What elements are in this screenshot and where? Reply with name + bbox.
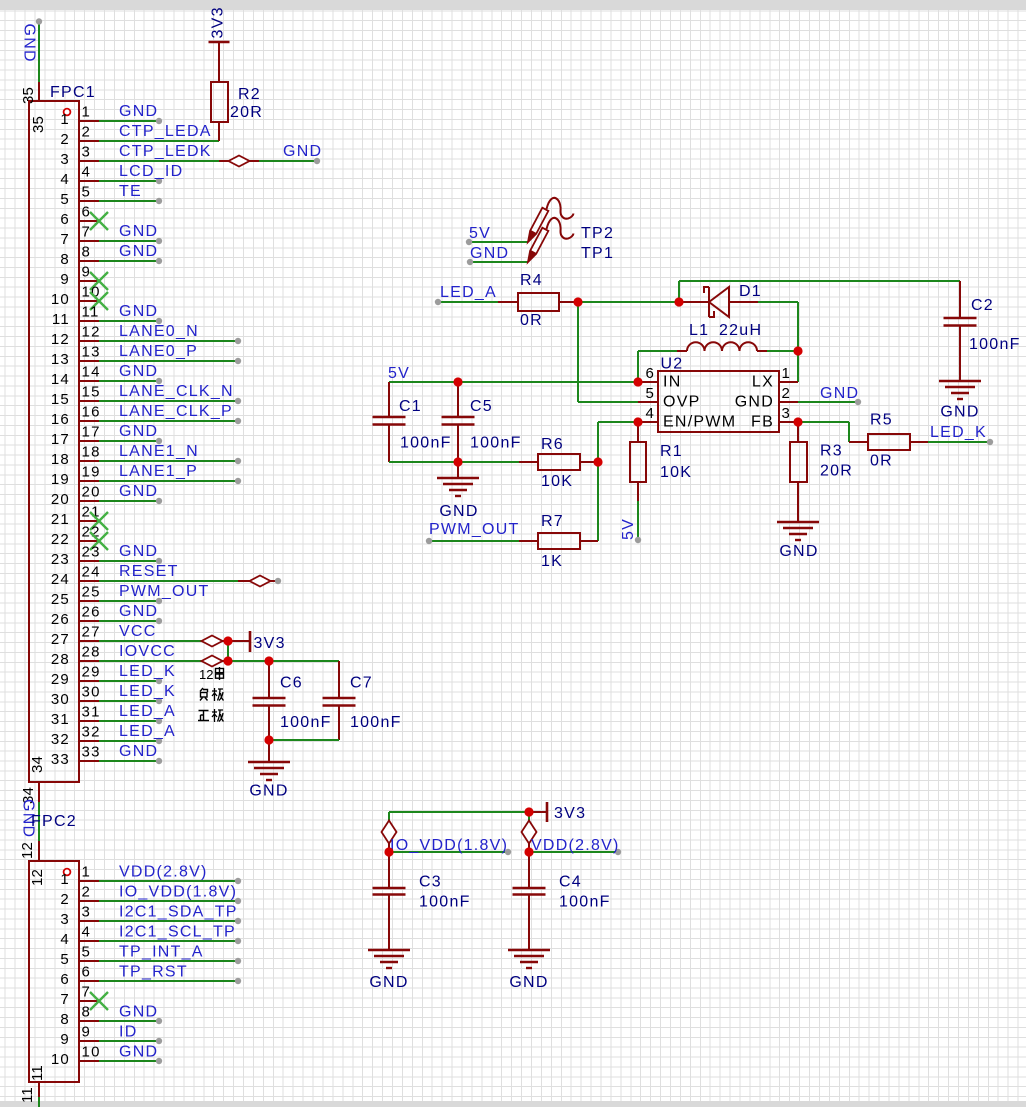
- net label GND pin 20: [119, 483, 158, 500]
- FPC1 pin 34 name (inside): [29, 756, 46, 773]
- net label GND pin 10: [119, 1044, 158, 1061]
- svg-text:28: 28: [82, 644, 101, 661]
- capacitor C3: [373, 852, 406, 950]
- net label GND on pin 3 wire: [283, 143, 322, 160]
- wire GND from FPC1 pin 20: [99, 498, 162, 504]
- svg-text:GND: GND: [940, 404, 979, 421]
- diode D1 (schottky): [679, 287, 758, 317]
- svg-text:22: 22: [51, 531, 70, 548]
- svg-text:LANE_CLK_P: LANE_CLK_P: [119, 403, 233, 420]
- svg-text:1: 1: [82, 104, 92, 121]
- FPC2 pin 5 stub: [60, 944, 99, 969]
- junction C5 top: [453, 377, 462, 386]
- FPC2 pin 12 number (outside): [19, 842, 36, 859]
- R7 value 1K: [541, 553, 563, 570]
- svg-text:16: 16: [51, 411, 70, 428]
- svg-text:2: 2: [60, 131, 70, 148]
- svg-text:IN: IN: [663, 374, 682, 391]
- svg-text:IOVCC: IOVCC: [119, 643, 176, 660]
- svg-text:27: 27: [51, 631, 70, 648]
- ground symbol below C2: [939, 381, 981, 399]
- wire LANE_CLK_N from FPC1 pin 15: [99, 398, 241, 404]
- FPC1 pin 33 stub: [51, 744, 101, 769]
- svg-text:GND: GND: [119, 363, 158, 380]
- svg-text:20R: 20R: [230, 104, 263, 121]
- D1 ref label: [739, 283, 762, 300]
- FPC1 pin 6 no-connect X: [90, 212, 108, 230]
- svg-text:VDD(2.8V): VDD(2.8V): [119, 864, 208, 881]
- FPC1 pin 21 stub: [51, 504, 101, 529]
- svg-text:12: 12: [29, 869, 46, 886]
- net label LED_K pin 30: [119, 683, 176, 700]
- C3 ref label: [419, 874, 442, 891]
- junction at EN pin: [633, 417, 642, 426]
- annotation text 负极 (negative): [200, 688, 224, 701]
- FPC2 pin 11 number (outside): [19, 1087, 36, 1103]
- svg-text:5V: 5V: [469, 225, 491, 242]
- R4 value 0R: [520, 312, 543, 329]
- svg-text:1: 1: [782, 365, 791, 382]
- svg-text:3: 3: [782, 405, 791, 422]
- svg-text:6: 6: [645, 365, 654, 382]
- top toolbar strip: [0, 0, 1026, 10]
- svg-text:C7: C7: [350, 675, 373, 692]
- net port diamond on IO_VDD branch: [382, 812, 397, 852]
- svg-text:GND: GND: [119, 543, 158, 560]
- svg-text:20R: 20R: [820, 463, 853, 480]
- svg-text:11: 11: [52, 311, 70, 328]
- svg-text:12: 12: [19, 842, 36, 859]
- net label LED_K: [930, 424, 987, 441]
- svg-text:R4: R4: [520, 272, 543, 289]
- wire R1 to 5V label: [635, 501, 641, 543]
- connector FPC2 body: [29, 861, 79, 1082]
- net label GND pin 8: [119, 243, 158, 260]
- R2 value 20R: [230, 104, 263, 121]
- FPC1 pin 11 stub: [52, 304, 100, 329]
- resistor R6: [519, 454, 598, 470]
- FPC2 pin 10 stub: [51, 1044, 101, 1069]
- svg-text:L1: L1: [689, 322, 709, 339]
- FPC2 ref label: [31, 813, 77, 830]
- svg-text:IO_VDD(1.8V): IO_VDD(1.8V): [390, 837, 508, 854]
- svg-text:100nF: 100nF: [280, 714, 332, 731]
- net label IO_VDD(1.8V): [390, 837, 508, 854]
- svg-text:LED_K: LED_K: [119, 683, 176, 700]
- GND flag text below C3: [369, 974, 408, 991]
- svg-text:14: 14: [82, 364, 101, 381]
- U2 pin 4 EN/PWM stub: [638, 405, 736, 431]
- power flag 3V3 at R2: [209, 6, 230, 42]
- FPC1 pin 12 stub: [51, 324, 101, 349]
- junction on IOVCC node: [223, 656, 232, 665]
- svg-text:9: 9: [82, 1024, 92, 1041]
- svg-text:14: 14: [51, 371, 70, 388]
- svg-text:33: 33: [82, 744, 101, 761]
- svg-text:3: 3: [60, 911, 70, 928]
- svg-text:PWM_OUT: PWM_OUT: [119, 583, 210, 600]
- svg-text:FPC1: FPC1: [50, 84, 96, 101]
- wire LANE_CLK_P from FPC1 pin 16: [99, 418, 241, 424]
- R5 value 0R: [870, 453, 893, 470]
- FPC1 pin 35 name (inside): [30, 116, 47, 133]
- R1 ref label: [660, 443, 683, 460]
- wire D1 anode to LX node: [758, 302, 798, 351]
- svg-text:EN/PWM: EN/PWM: [663, 414, 736, 431]
- C7 ref label: [350, 675, 373, 692]
- junction VDD node: [524, 847, 533, 856]
- svg-text:IO_VDD(1.8V): IO_VDD(1.8V): [119, 884, 237, 901]
- C4 value 100nF: [559, 894, 611, 911]
- junction C6 bottom: [264, 735, 273, 744]
- wire LED_A from FPC1 pin 31: [99, 718, 162, 724]
- FPC1 ref label: [50, 84, 96, 101]
- ground symbol below C5: [437, 462, 479, 496]
- wire LX junction down to LX pin: [797, 351, 799, 382]
- svg-text:8: 8: [82, 244, 92, 261]
- svg-text:C6: C6: [280, 675, 303, 692]
- svg-text:21: 21: [51, 511, 70, 528]
- svg-text:LCD_ID: LCD_ID: [119, 163, 183, 180]
- svg-text:TP2: TP2: [581, 225, 614, 242]
- R3 value 20R: [820, 463, 853, 480]
- resistor R4: [498, 293, 578, 311]
- FPC2 pin 8 stub: [60, 1004, 99, 1029]
- resistor R7: [519, 533, 598, 549]
- svg-text:16: 16: [82, 404, 101, 421]
- svg-text:20: 20: [82, 484, 101, 501]
- net port diamond on CTP_LEDK: [229, 156, 250, 167]
- svg-text:4: 4: [645, 405, 654, 422]
- wire PWM_OUT to R7: [426, 538, 519, 544]
- svg-text:I2C1_SDA_TP: I2C1_SDA_TP: [119, 904, 238, 921]
- wire GND from FPC1 pin 11: [99, 318, 162, 324]
- net label GND (vertical, between connectors): [20, 799, 37, 838]
- wire LANE1_N from FPC1 pin 18: [99, 458, 241, 464]
- FPC1 pin 10 stub: [51, 284, 101, 309]
- wire LANE0_N from FPC1 pin 12: [99, 338, 241, 344]
- svg-text:20: 20: [51, 491, 70, 508]
- svg-text:3V3: 3V3: [210, 6, 227, 38]
- svg-text:GND: GND: [119, 483, 158, 500]
- C1 ref label: [399, 398, 422, 415]
- U2 pin 2 GND stub: [735, 385, 798, 411]
- FPC2 pin 4 stub: [60, 924, 99, 949]
- FPC1 pin 10 no-connect X: [90, 292, 108, 310]
- svg-text:12: 12: [199, 667, 213, 682]
- wire LANE0_P from FPC1 pin 13: [99, 358, 241, 364]
- svg-text:6: 6: [60, 971, 70, 988]
- net label LANE0_P pin 13: [119, 343, 198, 360]
- capacitor C4: [513, 852, 546, 950]
- svg-text:GND: GND: [119, 423, 158, 440]
- svg-text:GND: GND: [735, 394, 774, 411]
- wire node down to OVP: [578, 302, 638, 402]
- svg-text:23: 23: [82, 544, 101, 561]
- wire GND between FPC1 pin34 and FPC2 pin12: [38, 802, 40, 841]
- R6 ref label: [541, 436, 564, 453]
- resistor R2: [211, 42, 228, 141]
- FPC1 pin 17 stub: [51, 424, 101, 449]
- svg-text:GND: GND: [779, 543, 818, 560]
- svg-text:34: 34: [29, 756, 46, 773]
- ground symbol below C6: [248, 740, 290, 780]
- capacitor C6: [253, 661, 286, 740]
- C6 value 100nF: [280, 714, 332, 731]
- svg-text:7: 7: [82, 224, 92, 241]
- svg-text:0R: 0R: [520, 312, 543, 329]
- junction C5 bottom: [453, 457, 462, 466]
- svg-text:GND: GND: [119, 223, 158, 240]
- svg-text:LED_A: LED_A: [119, 703, 176, 720]
- resistor R5: [849, 434, 928, 450]
- svg-text:VCC: VCC: [119, 623, 157, 640]
- C2 ref label: [971, 297, 994, 314]
- svg-text:100nF: 100nF: [559, 894, 611, 911]
- C3 value 100nF: [419, 894, 471, 911]
- capacitor C1: [373, 382, 406, 462]
- svg-text:FB: FB: [751, 414, 774, 431]
- svg-text:10K: 10K: [660, 464, 692, 481]
- wire RESET from FPC1 pin 24: [99, 580, 250, 582]
- FPC1 pin 9 no-connect X: [90, 272, 108, 290]
- wire CTP_LEDK from FPC1 pin 3: [99, 160, 229, 162]
- svg-text:4: 4: [60, 171, 70, 188]
- svg-text:LED_A: LED_A: [440, 284, 497, 301]
- net label GND pin 1: [119, 103, 158, 120]
- wire 5V to TP2: [466, 239, 528, 245]
- svg-text:2: 2: [82, 884, 92, 901]
- FPC2 pin 12 top stub: [38, 841, 40, 862]
- wire R6 node down to R7: [597, 462, 599, 541]
- svg-text:C3: C3: [419, 874, 442, 891]
- svg-text:2: 2: [60, 891, 70, 908]
- svg-text:100nF: 100nF: [969, 336, 1021, 353]
- net label GND (vertical, top left): [21, 24, 38, 63]
- FPC1 pin 25 stub: [51, 584, 101, 609]
- svg-text:3: 3: [60, 151, 70, 168]
- FPC1 pin 29 stub: [51, 664, 101, 689]
- wire GND from FPC1 pin 23: [99, 558, 162, 564]
- svg-text:VDD(2.8V): VDD(2.8V): [531, 837, 620, 854]
- svg-text:1: 1: [60, 871, 70, 888]
- FPC1 pin 8 stub: [60, 244, 99, 269]
- svg-text:29: 29: [82, 664, 101, 681]
- C6 ref label: [280, 675, 303, 692]
- GND flag text below C4: [509, 974, 548, 991]
- svg-text:GND: GND: [119, 603, 158, 620]
- svg-text:6: 6: [60, 211, 70, 228]
- wire VDD(2.8V) from FPC2 pin 1: [99, 878, 241, 884]
- svg-text:CTP_LEDK: CTP_LEDK: [119, 143, 212, 160]
- svg-text:27: 27: [82, 624, 101, 641]
- svg-text:GND: GND: [119, 103, 158, 120]
- wire CTP_LEDK to GND flag: [249, 158, 320, 164]
- svg-text:RESET: RESET: [119, 563, 179, 580]
- resistor R3: [790, 422, 807, 522]
- wire I2C1_SCL_TP from FPC2 pin 4: [99, 938, 241, 944]
- C2 value 100nF: [969, 336, 1021, 353]
- svg-text:9: 9: [60, 1031, 70, 1048]
- FPC1 pin 14 stub: [51, 364, 101, 389]
- svg-text:GND: GND: [439, 503, 478, 520]
- wire IOVCC from FPC1 pin 28: [99, 660, 202, 662]
- svg-text:GND: GND: [509, 974, 548, 991]
- wire RESET end: [270, 578, 281, 584]
- wire 5V rail to IN: [389, 381, 638, 383]
- GND flag text below R3: [779, 543, 818, 560]
- svg-text:3V3: 3V3: [554, 805, 586, 822]
- FPC1 pin 3 stub: [60, 144, 99, 169]
- wire GND to TP1: [467, 259, 528, 265]
- svg-text:3: 3: [82, 144, 92, 161]
- wire FB to R5: [798, 422, 849, 442]
- R5 ref label: [870, 412, 893, 429]
- svg-text:32: 32: [82, 724, 101, 741]
- svg-text:11: 11: [19, 1087, 36, 1103]
- svg-text:2: 2: [782, 385, 791, 402]
- svg-text:LANE0_P: LANE0_P: [119, 343, 198, 360]
- svg-text:32: 32: [51, 731, 70, 748]
- R3 ref label: [820, 443, 843, 460]
- svg-text:24: 24: [82, 564, 101, 581]
- FPC1 pin 32 stub: [51, 724, 101, 749]
- FPC1 pin 30 stub: [51, 684, 101, 709]
- svg-text:12: 12: [51, 331, 70, 348]
- svg-text:10: 10: [51, 291, 70, 308]
- FPC2 pin 7 stub: [60, 984, 99, 1009]
- FPC1 pin 24 stub: [51, 564, 101, 589]
- inductor L1 22uH: [677, 342, 767, 351]
- wire R6 node up to EN: [598, 422, 638, 462]
- FPC2 pin 7 no-connect X: [90, 992, 108, 1010]
- svg-text:10: 10: [51, 1051, 70, 1068]
- capacitor C5: [442, 382, 475, 462]
- GND flag text below C2: [940, 404, 979, 421]
- U2 pin 3 FB stub: [751, 405, 798, 431]
- U2 ref label: [661, 356, 684, 373]
- svg-text:LED_K: LED_K: [119, 663, 176, 680]
- FPC1 pin 22 no-connect X: [90, 532, 108, 550]
- svg-text:8: 8: [60, 251, 70, 268]
- FPC2 pin 6 stub: [60, 964, 99, 989]
- wire bottom rail C1 to R6: [389, 461, 519, 463]
- wire VCC to 3V3 flag: [222, 640, 250, 642]
- svg-text:TP_RST: TP_RST: [119, 964, 188, 981]
- net label GND pin 23: [119, 543, 158, 560]
- svg-text:GND: GND: [119, 1044, 158, 1061]
- svg-text:CTP_LEDA: CTP_LEDA: [119, 123, 212, 140]
- svg-text:GND: GND: [119, 1004, 158, 1021]
- net label IO_VDD(1.8V) pin 2: [119, 884, 237, 901]
- net label GND pin 33: [119, 743, 158, 760]
- junction at FB pin: [793, 417, 802, 426]
- net label LED_A: [440, 284, 497, 301]
- wire PWM_OUT from FPC1 pin 25: [99, 598, 162, 604]
- FPC2 pin-1 marker circle: [64, 869, 71, 876]
- svg-text:C4: C4: [559, 874, 582, 891]
- net label CTP_LEDK: [119, 143, 212, 160]
- FPC1 pin 28 stub: [51, 644, 101, 669]
- wire LED_K from FPC1 pin 29: [99, 678, 162, 684]
- connector FPC1 body: [29, 101, 79, 782]
- FPC1 pin 21 no-connect X: [90, 512, 108, 530]
- wire GND from FPC2 pin 10: [99, 1058, 162, 1064]
- svg-text:R2: R2: [238, 86, 261, 103]
- svg-text:13: 13: [51, 351, 70, 368]
- svg-text:1: 1: [60, 111, 70, 128]
- svg-text:GND: GND: [119, 743, 158, 760]
- svg-text:8: 8: [60, 1011, 70, 1028]
- net label LANE1_N pin 18: [119, 443, 199, 460]
- svg-text:GND: GND: [470, 245, 509, 262]
- svg-text:22uH: 22uH: [719, 322, 762, 339]
- wire GND to FPC1 pin 35: [36, 18, 42, 82]
- C5 value 100nF: [470, 435, 522, 452]
- net label GND pin 17: [119, 423, 158, 440]
- net label PWM_OUT: [429, 521, 520, 538]
- wire GND from FPC1 pin 33: [99, 758, 162, 764]
- svg-text:26: 26: [82, 604, 101, 621]
- IC U2 body: [658, 371, 779, 432]
- net label GND pin 26: [119, 603, 158, 620]
- svg-text:C5: C5: [470, 398, 493, 415]
- svg-text:18: 18: [51, 451, 70, 468]
- svg-text:6: 6: [82, 964, 92, 981]
- FPC1 pin 20 stub: [51, 484, 101, 509]
- svg-text:28: 28: [51, 651, 70, 668]
- junction C6 top: [264, 656, 273, 665]
- FPC1 pin 13 stub: [51, 344, 101, 369]
- wire VDD(2.8V): [529, 849, 621, 855]
- svg-text:GND: GND: [249, 783, 288, 800]
- resistor R1: [630, 422, 646, 501]
- svg-text:4: 4: [82, 924, 92, 941]
- svg-text:25: 25: [51, 591, 70, 608]
- svg-text:TP_INT_A: TP_INT_A: [119, 944, 204, 961]
- svg-text:ID: ID: [119, 1024, 138, 1041]
- svg-text:5V: 5V: [620, 518, 637, 540]
- svg-text:35: 35: [30, 116, 47, 133]
- FPC2 pin 1 stub: [60, 864, 99, 889]
- net label IOVCC: [119, 643, 176, 660]
- wire IO_VDD(1.8V): [389, 849, 511, 855]
- svg-text:100nF: 100nF: [400, 435, 452, 452]
- net label LANE0_N pin 12: [119, 323, 199, 340]
- svg-text:R6: R6: [541, 436, 564, 453]
- svg-text:100nF: 100nF: [419, 894, 471, 911]
- net label LCD_ID pin 4: [119, 163, 183, 180]
- power flag 3V3 at C3 C4: [529, 802, 586, 822]
- FPC1 pin 26 stub: [51, 604, 101, 629]
- svg-text:GND: GND: [119, 303, 158, 320]
- svg-text:25: 25: [82, 584, 101, 601]
- C1 value 100nF: [400, 435, 452, 452]
- svg-text:C2: C2: [971, 297, 994, 314]
- net label 5V below R1 (vertical): [620, 518, 637, 540]
- wire 3V3 top rail: [389, 811, 529, 813]
- svg-text:LED_A: LED_A: [119, 723, 176, 740]
- wire TP_INT_A from FPC2 pin 5: [99, 958, 241, 964]
- TP2 ref label: [581, 225, 614, 242]
- svg-text:5: 5: [60, 191, 70, 208]
- svg-text:1K: 1K: [541, 553, 563, 570]
- svg-text:3: 3: [82, 904, 92, 921]
- FPC1 pin 19 stub: [51, 464, 101, 489]
- svg-text:R1: R1: [660, 443, 683, 460]
- net label I2C1_SDA_TP pin 3: [119, 904, 238, 921]
- FPC1 pin 5 stub: [60, 184, 99, 209]
